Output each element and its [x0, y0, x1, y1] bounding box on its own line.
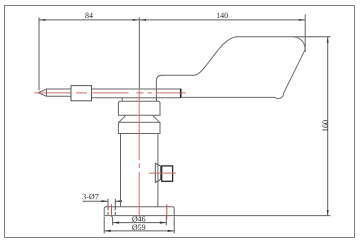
svg-text:Ø59: Ø59 — [132, 223, 146, 232]
svg-text:160: 160 — [321, 120, 330, 132]
svg-text:84: 84 — [85, 11, 93, 20]
svg-text:140: 140 — [216, 11, 228, 20]
svg-text:3-Ø7: 3-Ø7 — [82, 192, 98, 201]
